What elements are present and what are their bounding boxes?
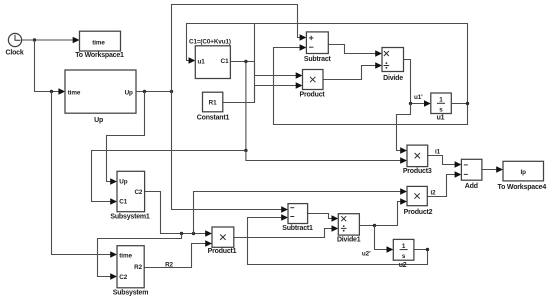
- wire C1 down to Subsystem1.C1: [92, 62, 246, 205]
- svg-text:C1=(C0+Kvu1): C1=(C0+Kvu1): [189, 39, 231, 46]
- svg-text:Divide1: Divide1: [337, 237, 361, 244]
- svg-text:u2': u2': [362, 250, 371, 257]
- svg-text:Clock: Clock: [5, 50, 23, 57]
- svg-text:C1: C1: [119, 199, 127, 206]
- svg-text:Up: Up: [119, 179, 127, 186]
- wire u1 integrator output: [451, 103, 467, 105]
- svg-text:Subsystem: Subsystem: [113, 290, 149, 297]
- block Product2: [404, 186, 433, 215]
- wire C1 to Product3 bottom: [246, 151, 407, 164]
- svg-text:Subtract1: Subtract1: [282, 225, 313, 232]
- wire u2 feedback to Subtract1 minus: [248, 214, 428, 264]
- svg-text:Subsystem1: Subsystem1: [110, 213, 150, 220]
- svg-text:i2: i2: [431, 190, 437, 197]
- svg-text:Product1: Product1: [208, 248, 237, 255]
- wire Up to Subsystem1.Up: [107, 92, 145, 185]
- node u2 output: [426, 248, 429, 251]
- block Product1: [208, 227, 237, 255]
- node u1 output: [466, 102, 469, 105]
- integrator u2: [393, 239, 414, 269]
- wire Divide output to integrator u1: [404, 60, 431, 107]
- wire C1 output to Product top: [230, 62, 302, 79]
- svg-text:Product2: Product2: [404, 209, 433, 216]
- svg-text:R2: R2: [165, 261, 173, 268]
- wire Up output: [136, 91, 172, 93]
- svg-text:u1: u1: [198, 58, 206, 65]
- wire u2 prime to integrator u2: [375, 226, 394, 253]
- subsystem C1=(C0+Kvu1): [189, 39, 231, 79]
- wire u1 feedback to Subtract minus: [274, 44, 468, 124]
- svg-text:C2: C2: [134, 189, 142, 196]
- integrator u1: [431, 93, 452, 122]
- svg-text:To Workspace1: To Workspace1: [75, 52, 124, 59]
- svg-text:1: 1: [439, 97, 443, 104]
- svg-text:R2: R2: [134, 264, 142, 271]
- node u2 prime: [373, 224, 376, 227]
- svg-text:u2: u2: [399, 262, 407, 269]
- svg-text:u1': u1': [414, 94, 423, 101]
- svg-text:Product3: Product3: [403, 168, 432, 175]
- wire Up to Subtract plus: [172, 5, 307, 92]
- node clock branch: [33, 38, 36, 41]
- wire u1 prime to Product3 top: [397, 104, 411, 154]
- node C1 output: [244, 60, 247, 63]
- svg-text:Ip: Ip: [520, 169, 526, 176]
- block Divide: [382, 48, 404, 83]
- wire Add output to Ip: [482, 166, 503, 172]
- svg-text:To Workspace4: To Workspace4: [498, 184, 547, 191]
- svg-text:s: s: [439, 107, 443, 114]
- wire Subtract1 output to Divide1: [308, 214, 339, 222]
- constant R1 Constant1: [197, 92, 230, 121]
- svg-text:time: time: [68, 90, 81, 97]
- wire Up to Subtract1 top: [172, 92, 289, 213]
- svg-text:u1: u1: [437, 115, 445, 122]
- block Add: [461, 159, 482, 190]
- svg-text:time: time: [119, 252, 132, 259]
- node Up branch 1: [143, 90, 146, 93]
- node C1 line junction: [244, 149, 247, 152]
- wire u1 feedback to C1 block input: [187, 24, 468, 104]
- wire C2 to Subsystem.C2: [98, 234, 182, 280]
- subsystem Subsystem1: [110, 171, 150, 220]
- svg-text:R1: R1: [209, 100, 217, 107]
- node C2 branch 1: [180, 232, 183, 235]
- wire Product1 output to Divide1: [234, 225, 338, 237]
- svg-text:Up: Up: [94, 117, 103, 124]
- block Subtract1: [282, 204, 313, 232]
- svg-text:Constant1: Constant1: [197, 115, 230, 122]
- svg-text:Subtract: Subtract: [304, 56, 332, 63]
- wire Clock to time block: [22, 37, 80, 43]
- wire clock down to Subsystem.time: [52, 92, 118, 258]
- wire i1 Product3 to Add: [428, 156, 462, 168]
- subsystem Subsystem: [113, 246, 149, 297]
- svg-text:Up: Up: [125, 90, 133, 97]
- block Ip To Workspace4: [498, 161, 547, 191]
- wire C2 to Product2 top: [194, 188, 408, 233]
- block Product3: [403, 145, 432, 175]
- subsystem Up: [65, 70, 136, 124]
- clock Clock: [5, 33, 23, 56]
- block Product: [299, 70, 325, 99]
- svg-text:C2: C2: [119, 274, 127, 281]
- node C2 branch 2: [192, 232, 195, 235]
- block Subtract: [304, 32, 332, 63]
- svg-text:Add: Add: [465, 183, 478, 190]
- wire R2 to Product1 bottom: [144, 240, 212, 267]
- node Up branch 2: [170, 90, 173, 93]
- wire Product output to Divide: [323, 62, 382, 79]
- svg-text:Divide: Divide: [383, 75, 403, 82]
- wire Subtract output to Divide: [328, 45, 382, 57]
- wire Divide1 output to Product2 bottom: [359, 198, 407, 225]
- svg-text:s: s: [402, 253, 406, 260]
- wire i2 Product2 to Add: [427, 171, 461, 196]
- wire clock down to Up.time: [35, 40, 66, 95]
- svg-text:time: time: [92, 40, 105, 47]
- wire vertical bus at x 254.5 from feedback line down to R1 line: [254, 24, 256, 103]
- svg-text:1: 1: [402, 243, 406, 250]
- wire C2 output to Product1 top: [145, 192, 212, 237]
- svg-text:i1: i1: [435, 149, 441, 156]
- block time To Workspace1: [75, 31, 124, 59]
- svg-text:C1: C1: [221, 58, 229, 65]
- node clock branch 2: [50, 90, 53, 93]
- wire R1 to Product bottom: [223, 82, 303, 102]
- block Divide1: [337, 214, 361, 244]
- node u1 prime: [409, 102, 412, 105]
- svg-text:Product: Product: [299, 91, 325, 98]
